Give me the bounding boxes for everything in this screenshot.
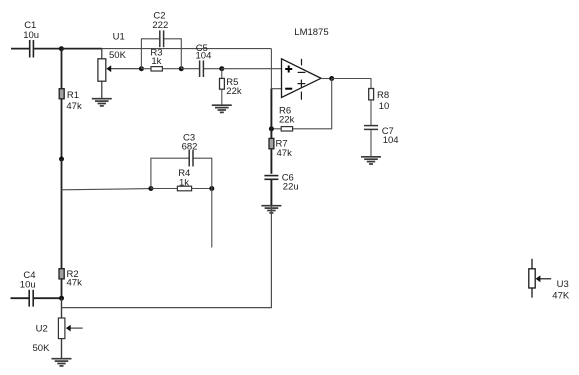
ground under U2 [52, 359, 72, 366]
node R3 left junction [139, 66, 144, 71]
wire left rail middle [61, 159, 63, 269]
capacitor C5 [181, 43, 222, 77]
wire U1 wiper arrow [106, 65, 141, 72]
node output junction [329, 76, 334, 81]
resistor R6 [271, 106, 294, 132]
wire C1 to input node [34, 48, 61, 50]
ground under U1 [92, 99, 112, 106]
wire output to R8 corner [332, 79, 371, 89]
resistor R5 [220, 69, 242, 105]
capacitor C3 with branch wires [151, 133, 212, 189]
svg-text:222: 222 [152, 20, 168, 31]
capacitor C4 [11, 270, 62, 307]
wire input left segment [11, 48, 29, 50]
svg-text:1k: 1k [179, 178, 189, 189]
ground under C7 [361, 157, 381, 164]
svg-text:U1: U1 [113, 31, 125, 42]
node R4 right junction [209, 186, 214, 191]
svg-text:104: 104 [196, 51, 212, 62]
svg-text:47k: 47k [67, 278, 83, 289]
wire ground branch to bottom rail [62, 206, 272, 308]
svg-text:22u: 22u [283, 182, 299, 193]
svg-text:22k: 22k [279, 115, 295, 126]
potentiometer U3 [529, 259, 570, 302]
node C4 junction [59, 296, 64, 301]
svg-text:R1: R1 [67, 90, 79, 101]
node input junction [59, 46, 64, 51]
node feedback junction [269, 126, 274, 131]
wire left rail upper [61, 49, 63, 89]
wire top rail thick part [61, 48, 101, 50]
svg-text:47K: 47K [552, 291, 570, 302]
svg-text:22k: 22k [226, 86, 242, 97]
svg-text:50K: 50K [33, 343, 51, 354]
svg-text:LM1875: LM1875 [294, 27, 328, 38]
svg-text:47k: 47k [66, 101, 82, 112]
svg-text:R8: R8 [377, 90, 389, 101]
resistor R1 [59, 89, 82, 159]
wire op-amp output [321, 78, 332, 80]
ground under R5 [212, 105, 232, 112]
node C5 R5 junction [219, 66, 224, 71]
node R3 right junction [179, 66, 184, 71]
svg-text:47k: 47k [277, 148, 293, 159]
svg-text:104: 104 [383, 135, 399, 146]
resistor R3 [141, 47, 181, 71]
svg-text:U3: U3 [557, 279, 569, 290]
wire to op-amp plus input [222, 68, 282, 70]
op-amp LM1875 [282, 27, 329, 100]
capacitor C2 with branch wires [141, 10, 181, 68]
svg-text:10u: 10u [20, 279, 36, 290]
resistor R2 [59, 269, 82, 299]
wire inverting branch vertical [270, 89, 272, 139]
svg-text:U2: U2 [36, 323, 48, 334]
svg-text:682: 682 [182, 141, 198, 152]
wire left rail lower [61, 298, 63, 318]
capacitor C6 [264, 173, 298, 206]
resistor R4 [151, 168, 212, 191]
svg-text:10: 10 [379, 101, 390, 112]
capacitor C7 [364, 126, 399, 157]
ground on inverting branch [261, 206, 281, 213]
potentiometer U1 [98, 31, 127, 98]
wire stub below R4 [211, 189, 213, 248]
wire tap to R4 [62, 189, 151, 190]
potentiometer U2 [33, 318, 65, 359]
wire inverting input drop [271, 49, 281, 89]
svg-text:50K: 50K [109, 50, 127, 61]
node middle rail dot [59, 157, 64, 162]
wire top rail to inverting corner [102, 48, 272, 50]
resistor R8 [369, 89, 390, 126]
wire feedback from output node [292, 79, 331, 129]
svg-text:10u: 10u [23, 30, 39, 41]
wire U2 wiper arrow [66, 325, 83, 332]
resistor R7 [269, 138, 292, 173]
svg-text:1k: 1k [151, 56, 161, 67]
capacitor C1 [23, 20, 39, 58]
wire U3 wiper arrow [536, 275, 552, 282]
node R4 left junction [148, 186, 153, 191]
